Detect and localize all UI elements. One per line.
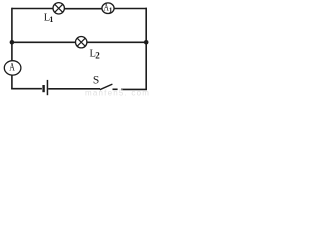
switch S lever xyxy=(100,84,113,90)
wire switch stub segment xyxy=(113,88,118,90)
lamp L2 xyxy=(76,37,87,48)
node junction right xyxy=(144,40,149,45)
wire bottom-left segment xyxy=(11,88,42,90)
wire top-middle segment xyxy=(64,8,102,10)
svg-text:2: 2 xyxy=(95,50,100,60)
wire top-left segment xyxy=(12,8,53,10)
wire bottom-right segment xyxy=(121,88,147,90)
wire battery-to-switch segment xyxy=(48,88,100,90)
lamp L1 xyxy=(53,3,64,14)
wire right vertical xyxy=(145,8,147,90)
wire top-right segment xyxy=(114,8,147,10)
svg-text:manfen5. com: manfen5. com xyxy=(85,89,150,96)
node junction left xyxy=(10,40,15,45)
ammeter A1 xyxy=(102,3,114,15)
wire middle-right segment xyxy=(87,41,146,43)
ammeter A xyxy=(4,61,21,75)
wire left vertical upper xyxy=(11,8,13,61)
battery cell xyxy=(42,80,48,95)
svg-text:1: 1 xyxy=(109,6,113,15)
svg-text:A: A xyxy=(9,62,15,74)
svg-text:1: 1 xyxy=(49,15,53,24)
wire middle-left segment xyxy=(12,41,76,43)
svg-text:S: S xyxy=(93,74,99,86)
wire left vertical lower xyxy=(11,75,13,89)
